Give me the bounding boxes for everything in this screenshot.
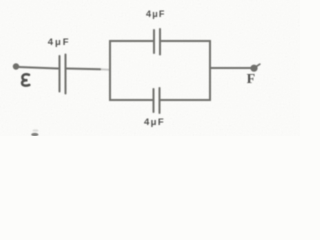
svg-text:4μF: 4μF xyxy=(146,9,166,19)
svg-text:F: F xyxy=(247,72,256,87)
svg-text:4μF: 4μF xyxy=(144,117,165,128)
svg-text:4μF: 4μF xyxy=(48,37,71,48)
